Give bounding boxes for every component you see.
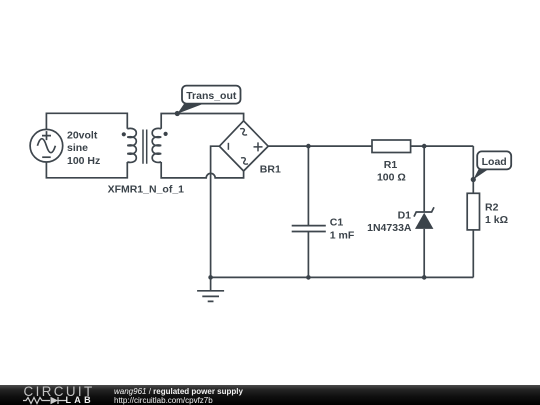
node dot Load <box>471 177 476 182</box>
svg-text:XFMR1_N_of_1: XFMR1_N_of_1 <box>108 183 185 195</box>
wire secondary top to bridge <box>161 114 243 129</box>
bridge rectifier BR1 body <box>219 121 268 171</box>
wire C1 branch top <box>307 146 309 225</box>
svg-text:R2: R2 <box>485 201 499 213</box>
node dot Trans_out <box>175 111 180 116</box>
capacitor C1 plates <box>292 226 326 232</box>
bridge BR1 ac mark bottom <box>240 156 248 165</box>
wire C1 branch bottom <box>307 232 309 278</box>
svg-text:1N4733A: 1N4733A <box>367 222 412 234</box>
svg-text:BR1: BR1 <box>260 164 281 176</box>
footer line 1 author/title <box>114 388 243 396</box>
svg-text:Trans_out: Trans_out <box>186 90 237 102</box>
bridge BR1 ac mark top <box>240 127 248 136</box>
wire primary top <box>46 113 127 129</box>
svg-text:100 Hz: 100 Hz <box>67 155 100 167</box>
svg-text:R1: R1 <box>384 159 398 171</box>
svg-text:20volt: 20volt <box>67 130 98 142</box>
zener diode D1 triangle <box>415 213 433 229</box>
flag Load box <box>477 151 511 169</box>
transformer XFMR1 core <box>143 130 147 164</box>
wire bridge left vertex to ground <box>211 146 220 277</box>
zener diode D1 cathode bar <box>414 207 434 216</box>
circuitlab logo text CIRCUIT <box>24 384 95 399</box>
wire secondary bottom to bridge with hop <box>161 162 243 178</box>
footer line 2 url <box>114 397 213 405</box>
ground stem <box>210 277 212 290</box>
circuitlab logo text LAB <box>66 395 94 405</box>
junction dot D1 bottom <box>422 275 427 280</box>
wire bridge right to R1 <box>268 145 372 147</box>
circuitlab logo waveform <box>23 396 69 405</box>
junction dot C1 top <box>306 144 311 149</box>
voltage source V1 minus sign <box>42 156 51 158</box>
wire right branch down to load node <box>472 146 474 193</box>
wire D1 branch bottom <box>423 229 425 278</box>
svg-text:C1: C1 <box>330 217 344 229</box>
bottom rail wire <box>211 276 474 278</box>
ground bars <box>197 291 224 302</box>
transformer secondary phase dot <box>164 132 168 136</box>
wire D1 branch top <box>423 146 425 212</box>
junction dot D1 top <box>422 144 427 149</box>
svg-text:1 kΩ: 1 kΩ <box>485 214 508 226</box>
wire R1 to corner <box>411 145 474 147</box>
transformer XFMR1 secondary winding <box>152 128 161 162</box>
voltage source V1 sine wave <box>37 139 55 153</box>
wire primary bottom <box>46 162 127 178</box>
resistor R2 body <box>467 193 479 230</box>
junction dot ground <box>208 275 213 280</box>
svg-text:sine: sine <box>67 142 88 154</box>
voltage source V1 body <box>30 129 63 162</box>
wire R2 to bottom rail <box>472 230 474 278</box>
svg-text:1 mF: 1 mF <box>330 229 355 241</box>
svg-text:100 Ω: 100 Ω <box>377 172 406 184</box>
flag Trans_out pointer <box>177 104 203 114</box>
transformer XFMR1 primary winding <box>127 128 136 162</box>
bridge BR1 plus mark <box>254 142 263 151</box>
bridge BR1 minus mark <box>227 143 229 150</box>
svg-text:D1: D1 <box>398 209 412 221</box>
junction dot C1 bottom <box>306 275 311 280</box>
flag Load pointer <box>473 169 488 179</box>
footer bar <box>0 385 540 405</box>
flag Trans_out box <box>182 86 241 104</box>
svg-text:Load: Load <box>482 156 507 168</box>
voltage source V1 plus sign <box>42 131 51 140</box>
transformer primary phase dot <box>122 132 126 136</box>
resistor R1 body <box>372 140 411 153</box>
